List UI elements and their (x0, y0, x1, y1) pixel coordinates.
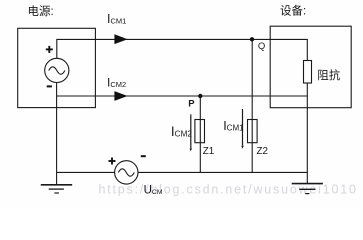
impedance Z2 body (248, 120, 258, 143)
node P dot (198, 94, 202, 98)
current arrow ICM1 (branch, down) (241, 109, 244, 149)
wire bottom rail left (57, 171, 115, 173)
ac source V1 circle (45, 58, 69, 82)
svg-text:Z2: Z2 (257, 146, 268, 157)
node Q dot (250, 37, 254, 41)
plus sign UCM (109, 158, 116, 165)
power source box (18, 28, 96, 107)
svg-text:P: P (188, 99, 195, 110)
ground right (292, 184, 323, 194)
minus sign UCM (141, 155, 146, 157)
impedance ZL body (device) (304, 61, 312, 84)
svg-text:电源:: 电源: (28, 4, 54, 18)
impedance Z1 body (195, 120, 205, 143)
wire resistor bottom lead (306, 83, 308, 183)
equipment box (270, 26, 351, 108)
svg-text:https://blog.csdn.net/wusuowei: https://blog.csdn.net/wusuowei1010 (99, 182, 358, 196)
wire top (ICM1 line) (57, 39, 307, 60)
ac source UCM sine (118, 169, 134, 176)
svg-text:阻抗: 阻抗 (317, 68, 340, 82)
minus sign V1 (47, 85, 52, 87)
arrow ICM1 on top wire (114, 34, 127, 44)
arrow ICM2 on lower wire (114, 91, 127, 101)
wire ICM2 horizontal (57, 95, 308, 97)
wire bottom rail right (138, 171, 307, 173)
svg-text:设备:: 设备: (280, 4, 306, 18)
wire Z2 branch (251, 39, 253, 172)
svg-text:Q: Q (258, 41, 265, 52)
current arrow ICM2 (branch, down) (190, 114, 193, 151)
plus sign V1 (46, 46, 53, 53)
wire Z1 branch (199, 96, 201, 172)
ac source UCM circle (115, 161, 138, 184)
ac source V1 sine (49, 67, 65, 74)
wire left vertical from source minus to ground (56, 83, 58, 185)
svg-text:Z1: Z1 (203, 146, 214, 157)
ground left (41, 185, 72, 193)
